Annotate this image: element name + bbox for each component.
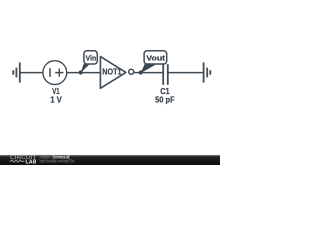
svg-text:50 pF: 50 pF xyxy=(155,96,175,105)
net flag Vin pointer xyxy=(81,64,90,73)
svg-text:LAB: LAB xyxy=(26,159,37,165)
node Vin junction dot xyxy=(79,70,83,74)
watermark bar xyxy=(0,155,220,165)
wire C1 to ground-right xyxy=(168,72,204,74)
svg-text:http://circuitlab.com/cmp375ck: http://circuitlab.com/cmp375ck xyxy=(40,158,76,163)
svg-text:NOT1: NOT1 xyxy=(102,67,121,77)
svg-text:1 V: 1 V xyxy=(50,95,62,104)
NOT gate NOT1 output bubble xyxy=(129,69,134,74)
voltage source V1 xyxy=(43,61,67,85)
svg-text:Vout: Vout xyxy=(146,54,165,63)
node Vout junction dot xyxy=(139,70,143,74)
ground GND right xyxy=(204,62,211,82)
NOT gate NOT1 triangle xyxy=(100,57,126,89)
capacitor C1 plates xyxy=(163,64,168,85)
net flag Vout pointer xyxy=(141,64,158,73)
wire ground-left to V1 xyxy=(20,72,43,74)
svg-text:Vin: Vin xyxy=(86,54,97,63)
ground GND left xyxy=(13,62,19,82)
wire NOT1 output to C1 xyxy=(134,72,163,74)
net flag Vin box xyxy=(84,51,97,64)
wire V1 to NOT1 input xyxy=(67,72,101,74)
net flag Vout box xyxy=(144,51,167,64)
logo resistor zigzag xyxy=(10,160,25,163)
